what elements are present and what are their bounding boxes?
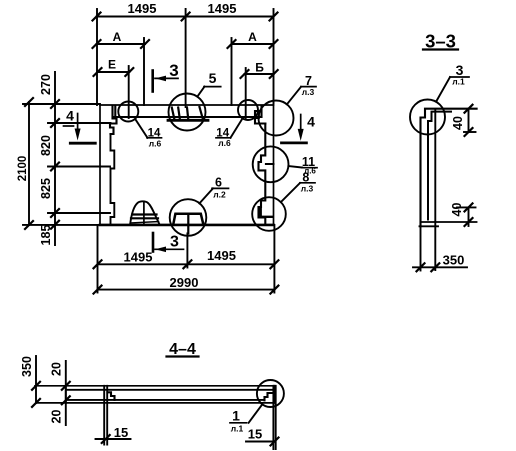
trapezoid center line xyxy=(187,214,189,234)
wire extension line y123 left xyxy=(48,122,111,124)
detail circle 7 xyxy=(259,101,294,136)
detail circle 4-4 right end xyxy=(257,380,284,407)
svg-text:20: 20 xyxy=(50,410,64,424)
tick xyxy=(62,382,70,390)
svg-text:820: 820 xyxy=(39,135,53,156)
tick xyxy=(32,382,40,390)
panel left corner notch xyxy=(110,106,117,135)
svg-text:л.6: л.6 xyxy=(218,138,231,148)
wire extension line mid top xyxy=(185,9,187,107)
leader to circle 6 xyxy=(199,188,213,203)
panel bottom edge thick xyxy=(100,224,274,227)
svg-text:15: 15 xyxy=(248,427,262,442)
bell thick band 2 xyxy=(131,217,158,219)
dim line 350 left of 4-4 xyxy=(35,356,37,403)
tick xyxy=(51,163,59,171)
tick xyxy=(51,209,59,217)
wire 40 bottom upper tick line xyxy=(457,206,476,208)
embed tab in circle 5: thick bottom xyxy=(168,119,208,122)
tick xyxy=(228,40,236,48)
dim line B (Б) xyxy=(245,73,274,75)
tick xyxy=(25,98,33,106)
tick xyxy=(125,68,133,76)
dim line 2990 xyxy=(98,289,275,291)
section marker 4 left: arrowhead xyxy=(75,129,81,141)
svg-text:л.1: л.1 xyxy=(452,77,465,87)
detail circle 14 right xyxy=(238,100,258,120)
svg-text:20: 20 xyxy=(50,362,64,376)
leader to circle 5 xyxy=(197,87,204,97)
wire extension left edge below xyxy=(97,225,99,293)
dim line 40 top xyxy=(468,109,470,132)
svg-text:л.6: л.6 xyxy=(149,139,162,149)
section marker 4 right: arrow line xyxy=(300,115,302,134)
leader to circle 8 xyxy=(281,183,300,202)
panel right wall inner line with stepped notches xyxy=(259,124,266,224)
leader to detail circle 3-3 xyxy=(436,77,450,102)
svg-text:40: 40 xyxy=(450,203,464,217)
section marker 3 bottom: arrow line xyxy=(155,248,184,250)
tick xyxy=(270,70,278,78)
label 11 underline xyxy=(302,167,317,169)
svg-text:A: A xyxy=(248,30,257,44)
slab top line xyxy=(35,385,274,387)
section marker 4 right: bar xyxy=(282,141,307,144)
panel top wall inner line xyxy=(113,116,262,118)
svg-text:350: 350 xyxy=(20,356,34,377)
svg-text:1495: 1495 xyxy=(128,1,157,16)
svg-text:4: 4 xyxy=(307,114,315,130)
detail circle 6 xyxy=(170,199,207,236)
svg-text:2100: 2100 xyxy=(17,156,29,182)
svg-text:1495: 1495 xyxy=(208,1,237,16)
label 1 underline xyxy=(230,422,247,424)
tick xyxy=(51,119,59,127)
dim line A left xyxy=(97,43,146,45)
slab left end cap xyxy=(65,386,67,403)
leader to circle 11 xyxy=(289,166,303,168)
label 14 right underline xyxy=(216,137,231,139)
wire short dash left wall xyxy=(64,125,74,127)
detail circle 8 xyxy=(252,197,286,231)
slab third line xyxy=(67,399,265,401)
detail circle 5 xyxy=(169,94,206,131)
leader to detail circle 4-4 xyxy=(249,404,263,423)
wire extension line E right end xyxy=(128,66,130,118)
section title underline xyxy=(423,48,458,50)
svg-text:4: 4 xyxy=(66,108,74,124)
section marker 4 right: arrowhead xyxy=(298,129,304,141)
section marker 3 bottom: arrowhead xyxy=(155,247,166,253)
section title underline xyxy=(167,355,199,357)
slab right joint verticals xyxy=(273,386,275,449)
tick xyxy=(25,221,33,229)
svg-text:3: 3 xyxy=(169,61,178,80)
detail circle 14 left xyxy=(118,102,138,122)
svg-text:185: 185 xyxy=(39,225,53,246)
dim line 15 left xyxy=(96,438,131,440)
svg-text:2990: 2990 xyxy=(170,275,199,290)
tick xyxy=(270,40,278,48)
section 3-3 bottom edge line 1 xyxy=(421,221,477,223)
tick xyxy=(271,438,279,446)
tick xyxy=(51,100,59,108)
svg-text:15: 15 xyxy=(114,425,128,440)
wire extension line y166.5 left xyxy=(48,166,110,168)
leader to circle 14 left xyxy=(136,120,148,138)
section 3-3 outer profile with top step xyxy=(421,109,477,227)
panel left edge xyxy=(99,105,101,225)
dim line 15 right xyxy=(246,441,275,443)
section marker 4 left: bar xyxy=(70,142,95,145)
panel left wall inner line with notches xyxy=(111,134,115,224)
section marker 3 top: bar xyxy=(151,71,154,92)
tick xyxy=(94,286,102,294)
tick xyxy=(270,286,278,294)
section marker 3 bottom: bar xyxy=(152,233,155,252)
label 3 underline xyxy=(450,76,469,78)
wire extension line B left end xyxy=(245,68,247,118)
panel right wall mid stub xyxy=(266,163,274,165)
leader to circle 14 right xyxy=(231,118,243,137)
tick xyxy=(465,128,473,136)
svg-text:270: 270 xyxy=(39,74,53,95)
bell shape on bottom wall xyxy=(130,201,160,224)
embed tab tick 3 xyxy=(187,108,188,119)
bell hatch 1 xyxy=(131,222,159,224)
dim line A right xyxy=(232,43,274,45)
svg-text:A: A xyxy=(113,30,122,44)
section marker 4 left: arrow line xyxy=(77,114,79,134)
wire extension line left edge top xyxy=(96,9,98,105)
section 3-3 right face line xyxy=(434,109,436,270)
svg-text:л.1: л.1 xyxy=(231,424,244,434)
tick xyxy=(93,40,101,48)
embed tab tick 1 xyxy=(172,108,175,119)
svg-text:3: 3 xyxy=(170,234,179,251)
panel right wall bottom notch thick infill xyxy=(260,209,272,217)
label 5 underline xyxy=(204,86,221,88)
wire extension line y224.9 left xyxy=(23,224,100,226)
svg-text:E: E xyxy=(108,58,116,72)
leader to circle 7 xyxy=(287,87,301,105)
embed tab tick 4 xyxy=(200,107,203,119)
label 8 underline xyxy=(300,182,315,184)
dim line 350 xyxy=(413,266,467,268)
tick xyxy=(431,263,439,271)
slab right joint step xyxy=(265,393,273,400)
svg-text:40: 40 xyxy=(451,116,465,130)
slab second line xyxy=(67,389,273,391)
bell center line xyxy=(143,202,145,225)
wire extension line y213 left xyxy=(48,212,110,214)
wire extension line A left end xyxy=(143,38,145,105)
panel top edge xyxy=(100,104,274,106)
bell thick band 1 xyxy=(132,213,156,215)
svg-text:825: 825 xyxy=(39,178,53,199)
svg-text:1: 1 xyxy=(232,408,240,424)
trapezoid in circle 6 xyxy=(173,214,203,224)
wire extension 3-3 left below xyxy=(420,226,422,270)
section marker 3 top: arrowhead xyxy=(155,76,166,82)
dim line 2100 xyxy=(28,102,30,225)
tick xyxy=(94,260,102,268)
svg-text:1495: 1495 xyxy=(124,250,153,265)
tick xyxy=(141,40,149,48)
slab right end cap xyxy=(273,386,275,403)
tick xyxy=(102,435,110,443)
wire extension right edge below xyxy=(273,225,275,293)
svg-text:Б: Б xyxy=(255,61,264,75)
dim line 20s left of 4-4 xyxy=(65,361,67,425)
svg-text:3–3: 3–3 xyxy=(425,31,456,52)
tick xyxy=(93,13,101,21)
tick xyxy=(51,221,59,229)
tick xyxy=(94,68,102,76)
slab bottom line xyxy=(36,402,274,404)
wire 40 top lower tick line xyxy=(464,131,476,133)
label 6 underline xyxy=(212,187,229,189)
section marker 3 top: arrow line xyxy=(155,77,178,79)
wire extension line y104 left xyxy=(23,103,100,105)
tick xyxy=(241,70,249,78)
detail circle 3-3 top xyxy=(410,100,445,135)
panel right corner notch xyxy=(255,106,265,124)
tick xyxy=(270,13,278,21)
svg-text:л.3: л.3 xyxy=(302,87,315,97)
dim line left segments xyxy=(54,72,56,245)
tick xyxy=(62,396,70,404)
tick xyxy=(417,263,425,271)
svg-text:1495: 1495 xyxy=(207,248,236,263)
svg-text:350: 350 xyxy=(443,253,465,268)
section 3-3 bottom edge line 2 xyxy=(420,225,439,227)
label 14 left underline xyxy=(147,137,162,139)
tick xyxy=(270,260,278,268)
tick xyxy=(465,105,473,113)
tick xyxy=(183,260,191,268)
svg-text:л.2: л.2 xyxy=(213,190,226,200)
svg-text:6: 6 xyxy=(215,176,222,190)
slab left joint verticals xyxy=(104,386,107,445)
tick xyxy=(465,203,473,211)
dim line E xyxy=(98,71,130,73)
slab left joint step xyxy=(108,392,115,400)
tick xyxy=(182,13,190,21)
wire extension line A right start xyxy=(231,38,233,105)
tick xyxy=(465,218,473,226)
svg-text:5: 5 xyxy=(209,70,217,86)
svg-text:л.3: л.3 xyxy=(301,184,314,194)
detail circle 11 xyxy=(253,146,289,182)
wire extension line right edge top xyxy=(273,9,275,103)
panel right edge xyxy=(273,103,275,225)
section 3-3 inner profile with top step xyxy=(428,112,451,220)
dim line 40 bottom xyxy=(468,207,470,226)
label 7 underline xyxy=(301,86,316,88)
tick xyxy=(32,399,40,407)
embed tab tick 2 xyxy=(178,108,180,119)
wire extension from trapezoid to bottom dims xyxy=(186,233,188,267)
dim line 1495 1495 bottom xyxy=(98,263,275,265)
dim line 1495 1495 top xyxy=(97,16,274,18)
